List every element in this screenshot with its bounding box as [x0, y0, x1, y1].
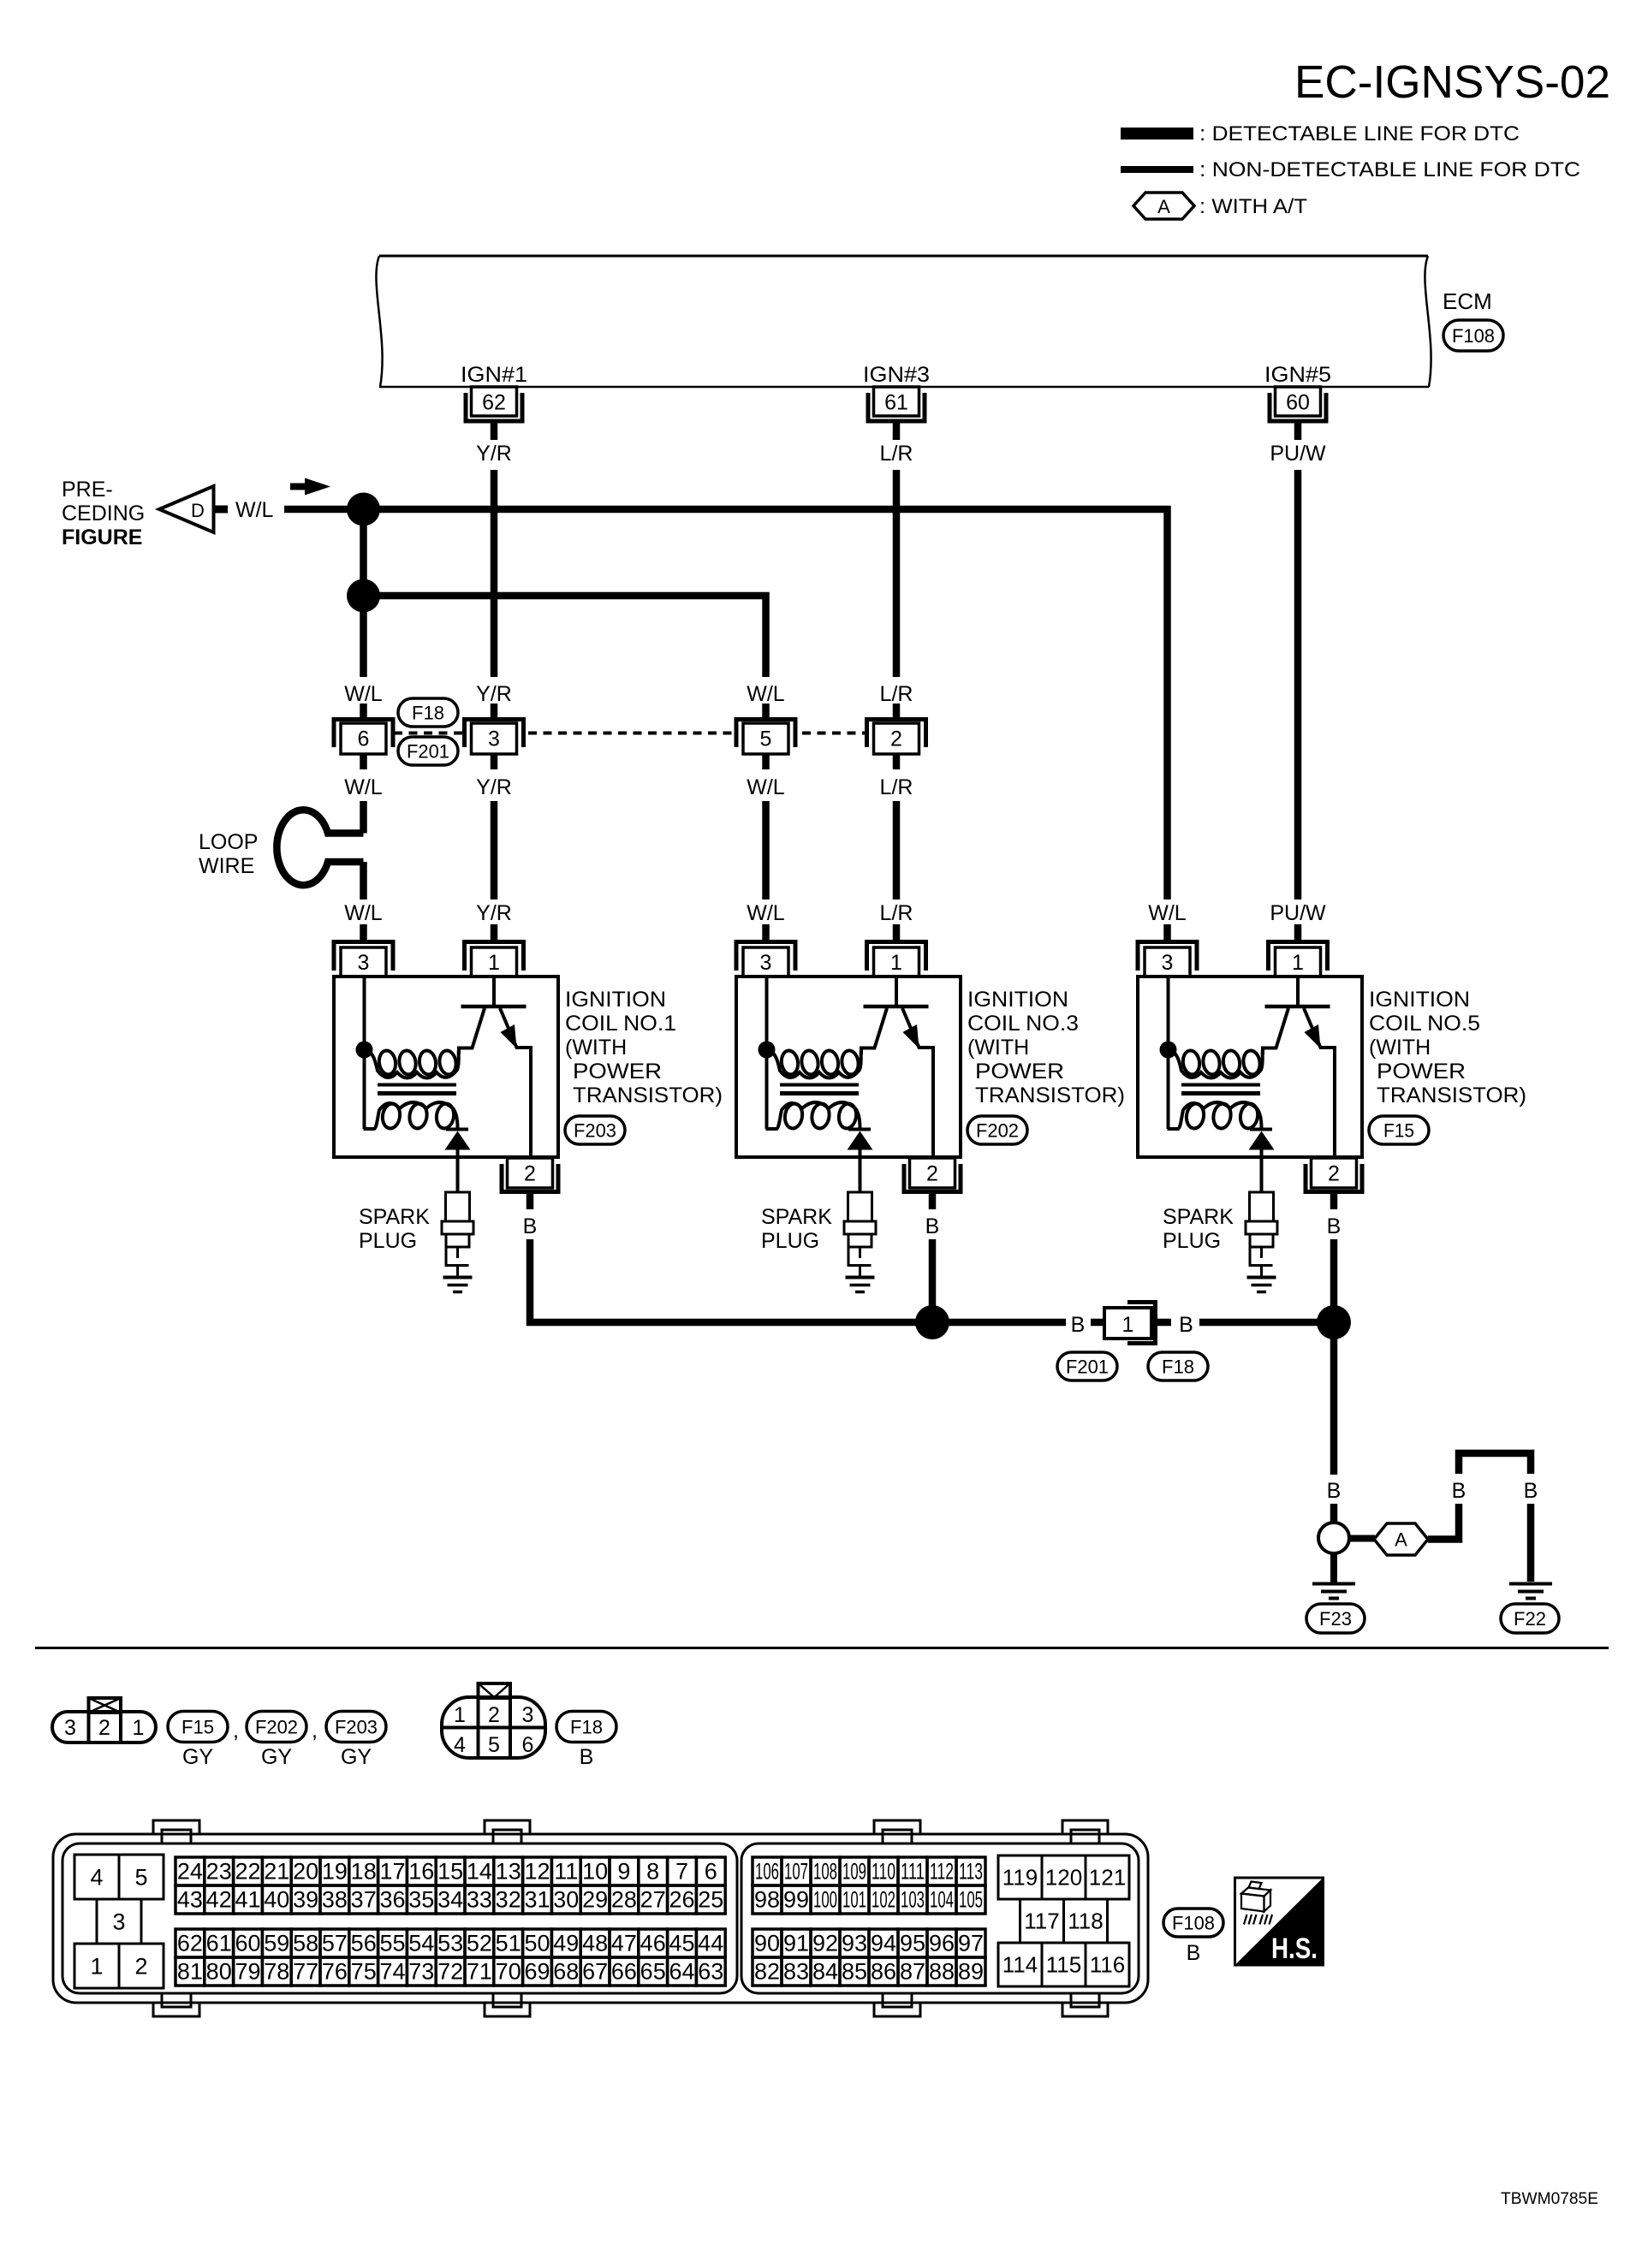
- svg-text:77: 77: [293, 1959, 318, 1985]
- svg-text:TRANSISTOR): TRANSISTOR): [1377, 1084, 1526, 1107]
- svg-text:50: 50: [524, 1931, 550, 1956]
- coil 3 transistor collector: [861, 1008, 887, 1054]
- svg-text:F201: F201: [1066, 1357, 1109, 1378]
- svg-text:56: 56: [351, 1931, 377, 1956]
- svg-text:43: 43: [177, 1887, 203, 1913]
- coil 5 primary feed wire: [1167, 978, 1170, 1129]
- svg-text:111: 111: [901, 1859, 925, 1885]
- coil 5 transformer core: [1181, 1084, 1260, 1087]
- svg-text:3: 3: [522, 1703, 534, 1727]
- coil 5 winding junction dot: [1160, 1042, 1177, 1059]
- ECM pin grid 106-113 / 98-105: [753, 1857, 782, 1885]
- ECM connector mounting tab bottom: [1062, 2002, 1108, 2016]
- svg-text:61: 61: [884, 391, 908, 415]
- svg-text:8: 8: [646, 1859, 659, 1885]
- svg-text:18: 18: [351, 1859, 377, 1885]
- coil 3 power transistor base wire: [895, 978, 898, 1006]
- svg-text:W/L: W/L: [747, 682, 785, 706]
- svg-text:99: 99: [783, 1887, 809, 1913]
- svg-text:87: 87: [900, 1959, 925, 1985]
- svg-text:28: 28: [611, 1887, 637, 1913]
- svg-text:GY: GY: [182, 1745, 213, 1769]
- svg-text:COIL NO.1: COIL NO.1: [565, 1012, 676, 1036]
- svg-text:TRANSISTOR): TRANSISTOR): [573, 1084, 723, 1107]
- svg-text:Y/R: Y/R: [476, 682, 512, 706]
- svg-text:39: 39: [293, 1887, 318, 1913]
- ECM large pin 5: [119, 1855, 164, 1899]
- svg-text:PLUG: PLUG: [1163, 1229, 1221, 1253]
- coil 3 power transistor base bar: [864, 1005, 929, 1009]
- svg-text:: WITH A/T: : WITH A/T: [1199, 195, 1307, 218]
- svg-text:LOOP: LOOP: [199, 830, 258, 854]
- svg-text:A: A: [1157, 196, 1170, 217]
- svg-text:85: 85: [842, 1959, 867, 1985]
- svg-text:F108: F108: [1172, 1913, 1215, 1934]
- W/L wire into loop: [360, 801, 367, 834]
- svg-text:B: B: [1327, 1479, 1342, 1503]
- svg-text:B: B: [1327, 1214, 1342, 1238]
- coil 3 transformer secondary winding: [766, 1102, 860, 1129]
- svg-text:SPARK: SPARK: [359, 1205, 430, 1229]
- svg-text:(WITH: (WITH: [967, 1036, 1029, 1060]
- svg-text:W/L: W/L: [747, 901, 785, 925]
- ECM large pins 114-116: [998, 1943, 1042, 1986]
- loop wire: [277, 810, 363, 885]
- svg-text:6: 6: [522, 1733, 534, 1757]
- ignition coil no.1 box: [334, 977, 558, 1157]
- svg-text:118: 118: [1068, 1909, 1103, 1934]
- ECM pin 62: [466, 393, 522, 421]
- svg-text:5: 5: [760, 727, 772, 751]
- svg-text:B: B: [1187, 1941, 1201, 1965]
- B wire from coil 1 to ground bus: [530, 1239, 1066, 1322]
- ECM large pin 1: [74, 1944, 119, 1988]
- svg-text:3: 3: [112, 1909, 125, 1935]
- svg-text:47: 47: [611, 1931, 637, 1956]
- svg-text:72: 72: [437, 1959, 463, 1985]
- svg-text:59: 59: [264, 1931, 289, 1956]
- svg-text:48: 48: [582, 1931, 608, 1956]
- coil 1 transformer primary winding: [366, 1049, 460, 1078]
- svg-text:3: 3: [1162, 951, 1174, 975]
- svg-text:F18: F18: [570, 1717, 603, 1738]
- svg-text:IGN#3: IGN#3: [863, 363, 930, 387]
- svg-text:68: 68: [553, 1959, 579, 1985]
- H.S. logo triangle: [1235, 1878, 1324, 1965]
- svg-text:12: 12: [524, 1859, 550, 1885]
- svg-text:9: 9: [617, 1859, 630, 1885]
- svg-text:49: 49: [553, 1931, 579, 1956]
- svg-text:Y/R: Y/R: [476, 775, 512, 799]
- svg-text:17: 17: [379, 1859, 405, 1885]
- svg-text:30: 30: [553, 1887, 579, 1913]
- svg-text:EC-IGNSYS-02: EC-IGNSYS-02: [1294, 56, 1610, 108]
- coil 3 spark plug: [859, 1157, 862, 1192]
- ignition coil no.3 pin 2: [910, 1158, 955, 1188]
- coil 1 connector id F203: [565, 1116, 625, 1144]
- ignition coil no.1 pin 1: [491, 924, 498, 941]
- ECM large pins 119-121: [998, 1855, 1042, 1899]
- B wire stub to ground eyelet: [1330, 1504, 1338, 1522]
- svg-text:F23: F23: [1319, 1608, 1352, 1630]
- svg-text:33: 33: [467, 1887, 492, 1913]
- svg-text:: NON-DETECTABLE LINE FOR DTC: : NON-DETECTABLE LINE FOR DTC: [1199, 158, 1580, 181]
- coil connector face (3-pin): [52, 1712, 156, 1743]
- svg-text:PU/W: PU/W: [1270, 442, 1326, 466]
- svg-text:80: 80: [206, 1959, 232, 1985]
- branch bridge wire: [1459, 1453, 1531, 1474]
- svg-text:54: 54: [408, 1931, 434, 1956]
- ignition coil no.3 pin 3: [762, 924, 770, 941]
- svg-text:103: 103: [901, 1887, 925, 1913]
- svg-text:89: 89: [958, 1959, 984, 1985]
- svg-text:POWER: POWER: [573, 1060, 662, 1084]
- ECM pin 61: [868, 393, 925, 421]
- svg-text:86: 86: [871, 1959, 896, 1985]
- stub into splice connector: [1091, 1319, 1105, 1327]
- coil 3 transformer primary winding: [768, 1049, 862, 1078]
- ECM large pin 2: [119, 1944, 164, 1988]
- coil 3 transistor emitter: [902, 1008, 933, 1157]
- svg-text:107: 107: [784, 1859, 808, 1885]
- svg-text:3: 3: [488, 727, 500, 751]
- ECM connector mounting tab bottom: [874, 2002, 920, 2016]
- svg-text:F108: F108: [1452, 325, 1495, 347]
- H.S. logo connector sketch: [1241, 1882, 1272, 1925]
- svg-text:5: 5: [134, 1865, 147, 1891]
- svg-text:B: B: [1524, 1479, 1538, 1503]
- connector F18/F201 pin 2: [893, 704, 901, 720]
- svg-text:IGN#1: IGN#1: [461, 363, 527, 387]
- PU/W wire: [1294, 470, 1302, 899]
- connector F18/F201 pin 5: [762, 704, 770, 720]
- svg-text:B: B: [523, 1214, 538, 1238]
- svg-text:71: 71: [467, 1959, 492, 1985]
- svg-text:27: 27: [640, 1887, 666, 1913]
- coil 5 transformer secondary winding: [1168, 1102, 1262, 1129]
- svg-text:B: B: [580, 1745, 594, 1769]
- svg-text:110: 110: [872, 1859, 895, 1885]
- svg-text:6: 6: [705, 1859, 717, 1885]
- coil 3 primary feed wire: [765, 978, 769, 1129]
- H.S. logo square: [1235, 1878, 1324, 1965]
- svg-text:F18: F18: [412, 703, 444, 724]
- svg-text:7: 7: [675, 1859, 688, 1885]
- coil 5 secondary diode: [1250, 1128, 1272, 1131]
- W/L wire below loop: [360, 862, 367, 899]
- coil 5 power transistor base wire: [1296, 978, 1300, 1006]
- eyelet to ground stub: [1330, 1553, 1337, 1582]
- coil 3 transistor emitter arrow: [903, 1024, 919, 1048]
- svg-text:SPARK: SPARK: [761, 1205, 832, 1229]
- coil 3 spark plug ground: [846, 1276, 875, 1279]
- section separator line: [35, 1647, 1609, 1649]
- coil 5 transistor collector: [1263, 1008, 1288, 1054]
- svg-text:F203: F203: [574, 1120, 616, 1142]
- svg-text:F15: F15: [1383, 1120, 1414, 1142]
- svg-text:POWER: POWER: [975, 1060, 1064, 1084]
- svg-text:114: 114: [1002, 1952, 1038, 1978]
- svg-text:GY: GY: [341, 1745, 372, 1769]
- svg-text:117: 117: [1024, 1909, 1059, 1934]
- connector id F202: [247, 1712, 306, 1743]
- svg-text:95: 95: [900, 1931, 925, 1956]
- ECM connector mounting tab bottom: [153, 2002, 199, 2016]
- ignition coil no.1 pin 2: [508, 1158, 553, 1188]
- svg-text:42: 42: [206, 1887, 232, 1913]
- connector id F18: [398, 698, 458, 727]
- svg-text:44: 44: [698, 1931, 723, 1956]
- svg-text:109: 109: [842, 1859, 866, 1885]
- coil 1 transistor emitter: [500, 1008, 531, 1157]
- Y/R wire upper: [491, 470, 498, 677]
- svg-text:3: 3: [760, 951, 772, 975]
- with A/T hexagon: [1374, 1523, 1428, 1555]
- ECM connector mounting tab bottom: [485, 2002, 530, 2016]
- splice connector id F201: [1057, 1352, 1117, 1380]
- svg-text:37: 37: [351, 1887, 377, 1913]
- svg-text:FIGURE: FIGURE: [62, 525, 142, 549]
- ignition coil no.5 pin 3: [1163, 924, 1171, 941]
- W/L riser wire: [360, 509, 367, 677]
- svg-text:57: 57: [322, 1931, 348, 1956]
- svg-text:92: 92: [812, 1931, 838, 1956]
- svg-text:ECM: ECM: [1443, 288, 1492, 314]
- legend non-detectable line sample: [1121, 166, 1193, 173]
- svg-text:PLUG: PLUG: [761, 1229, 819, 1253]
- svg-text:Y/R: Y/R: [476, 442, 512, 466]
- coil 1 transistor emitter arrow: [501, 1024, 517, 1048]
- svg-text:W/L: W/L: [235, 498, 274, 522]
- ground eyelet circle: [1318, 1523, 1349, 1553]
- W/L wire lower to coil 3: [762, 801, 770, 899]
- svg-text:113: 113: [959, 1859, 983, 1885]
- ECM connector mounting tab top: [1062, 1820, 1108, 1835]
- svg-text:L/R: L/R: [880, 682, 913, 706]
- coil 3 connector id F202: [967, 1116, 1027, 1144]
- svg-text:90: 90: [754, 1931, 780, 1956]
- svg-text:GY: GY: [261, 1745, 292, 1769]
- coil 5 connector id F15: [1369, 1116, 1429, 1144]
- svg-text:13: 13: [496, 1859, 521, 1885]
- svg-text:B: B: [1452, 1479, 1466, 1503]
- W/L branch wire to coil no.3 column: [364, 596, 766, 677]
- svg-text:116: 116: [1090, 1952, 1125, 1978]
- svg-text:D: D: [191, 500, 205, 521]
- svg-text:3: 3: [358, 951, 370, 975]
- svg-text:COIL NO.3: COIL NO.3: [967, 1012, 1079, 1036]
- svg-text:1: 1: [454, 1703, 466, 1727]
- coil connector key tab: [89, 1698, 122, 1713]
- connector id F15: [168, 1712, 228, 1743]
- svg-text:1: 1: [133, 1716, 145, 1740]
- svg-text:A: A: [1395, 1529, 1407, 1551]
- B wire down from junction: [1330, 1322, 1338, 1475]
- svg-text:69: 69: [524, 1959, 550, 1985]
- svg-text:5: 5: [488, 1733, 500, 1757]
- svg-text:TBWM0785E: TBWM0785E: [1501, 2189, 1598, 2208]
- svg-text:IGNITION: IGNITION: [1369, 988, 1470, 1012]
- ECM large pin 4: [74, 1855, 119, 1899]
- ECM connector outer shell: [53, 1834, 1148, 2003]
- svg-text:67: 67: [582, 1959, 608, 1985]
- svg-text:W/L: W/L: [1148, 901, 1187, 925]
- ECM connector mounting tab top: [485, 1820, 530, 1835]
- coil 5 power transistor base bar: [1265, 1005, 1330, 1009]
- svg-text:PLUG: PLUG: [359, 1229, 417, 1253]
- stub from triangle: [215, 506, 228, 514]
- B bus junction dot at coil 5: [1317, 1305, 1351, 1339]
- svg-text:98: 98: [754, 1887, 780, 1913]
- svg-text:4: 4: [454, 1733, 466, 1757]
- svg-text:4: 4: [90, 1865, 103, 1891]
- svg-text:1: 1: [488, 951, 500, 975]
- svg-text:40: 40: [264, 1887, 289, 1913]
- svg-text:F22: F22: [1514, 1608, 1546, 1630]
- svg-text:58: 58: [293, 1931, 318, 1956]
- coil 3 transformer core: [780, 1084, 859, 1087]
- svg-text:2: 2: [926, 1162, 938, 1186]
- svg-text:TRANSISTOR): TRANSISTOR): [975, 1084, 1125, 1107]
- svg-text:WIRE: WIRE: [199, 854, 254, 878]
- svg-text:60: 60: [235, 1931, 260, 1956]
- svg-text:73: 73: [408, 1959, 434, 1985]
- coil 1 winding junction dot: [356, 1042, 373, 1059]
- ECM connector right inner shell: [741, 1843, 1139, 1993]
- svg-text:102: 102: [872, 1887, 895, 1913]
- coil 1 secondary diode: [446, 1128, 468, 1131]
- svg-text:120: 120: [1045, 1865, 1082, 1891]
- svg-text:62: 62: [482, 391, 506, 415]
- svg-text:H.S.: H.S.: [1271, 1933, 1318, 1965]
- ECM large pins 117-118: [1020, 1899, 1064, 1943]
- svg-text:F201: F201: [407, 741, 449, 763]
- svg-text:F202: F202: [255, 1717, 298, 1738]
- svg-text:34: 34: [437, 1887, 463, 1913]
- svg-text:IGNITION: IGNITION: [967, 988, 1068, 1012]
- svg-text:2: 2: [1328, 1162, 1340, 1186]
- svg-text:(WITH: (WITH: [565, 1036, 627, 1060]
- ground symbol F22: [1509, 1582, 1552, 1586]
- svg-text:65: 65: [640, 1959, 666, 1985]
- svg-text:52: 52: [467, 1931, 492, 1956]
- coil 5 transistor emitter arrow: [1305, 1024, 1321, 1048]
- svg-text:121: 121: [1089, 1865, 1126, 1891]
- svg-text:2: 2: [488, 1703, 500, 1727]
- coil 5 transistor emitter: [1304, 1008, 1335, 1157]
- ECM connector mounting tab top: [153, 1820, 199, 1835]
- connector F18/F201 pin 3: [491, 704, 498, 720]
- svg-text:35: 35: [408, 1887, 434, 1913]
- svg-text:,: ,: [233, 1719, 239, 1743]
- svg-text:115: 115: [1046, 1952, 1081, 1978]
- coil 1 primary feed wire: [363, 978, 366, 1129]
- coil 5 spark plug ground: [1247, 1276, 1276, 1279]
- L/R wire upper: [893, 470, 901, 677]
- svg-text:SPARK: SPARK: [1163, 1205, 1234, 1229]
- ignition coil no.5 box: [1138, 977, 1362, 1157]
- connector id F18: [556, 1712, 616, 1743]
- ECM pin grid 62-44 / 81-63: [176, 1929, 205, 1957]
- splice connector pin 1: [1104, 1308, 1151, 1339]
- svg-text:61: 61: [206, 1931, 232, 1956]
- svg-text:104: 104: [930, 1887, 954, 1913]
- svg-text:,: ,: [312, 1719, 318, 1743]
- svg-text:6: 6: [358, 727, 370, 751]
- svg-text:66: 66: [611, 1959, 637, 1985]
- coil 3 winding junction dot: [759, 1042, 776, 1059]
- svg-text:26: 26: [669, 1887, 694, 1913]
- Y/R wire lower: [491, 801, 498, 899]
- svg-text:W/L: W/L: [344, 901, 383, 925]
- B wire from coil 3: [929, 1239, 937, 1322]
- svg-text:PRE-: PRE-: [62, 478, 113, 502]
- ECM box: [379, 255, 1428, 258]
- stub from eyelet to A hexagon: [1349, 1535, 1375, 1542]
- svg-text:15: 15: [437, 1859, 463, 1885]
- B wire from coil 5: [1330, 1239, 1338, 1322]
- connector F18/F201 pin 6: [360, 704, 367, 720]
- svg-text:IGN#5: IGN#5: [1264, 363, 1331, 387]
- svg-text:51: 51: [496, 1931, 521, 1956]
- ECM connector id F108: [1443, 320, 1503, 351]
- ECM large pin 3: [97, 1899, 141, 1944]
- ignition coil no.3 pin 1: [893, 924, 901, 941]
- ECM connector id F108: [1163, 1909, 1223, 1937]
- ECM connector mounting tab top: [874, 1820, 920, 1835]
- svg-text:45: 45: [669, 1931, 694, 1956]
- svg-text:1: 1: [90, 1954, 103, 1980]
- B bus right segment: [1199, 1319, 1334, 1327]
- svg-text:60: 60: [1286, 391, 1310, 415]
- svg-text:14: 14: [467, 1859, 492, 1885]
- ground symbol F23: [1312, 1582, 1355, 1586]
- svg-text:75: 75: [351, 1959, 377, 1985]
- B bus junction dot at coil 3: [915, 1305, 949, 1339]
- svg-text:70: 70: [496, 1959, 521, 1985]
- svg-text:IGNITION: IGNITION: [565, 988, 666, 1012]
- svg-text:105: 105: [959, 1887, 983, 1913]
- svg-text:100: 100: [813, 1887, 837, 1913]
- svg-text:3: 3: [64, 1716, 76, 1740]
- svg-text:25: 25: [698, 1887, 723, 1913]
- svg-text:L/R: L/R: [880, 901, 913, 925]
- svg-text:81: 81: [177, 1959, 203, 1985]
- coil 5 spark plug: [1260, 1157, 1264, 1192]
- ECM pin 60: [1270, 393, 1326, 421]
- svg-text:55: 55: [379, 1931, 405, 1956]
- svg-text:119: 119: [1002, 1865, 1038, 1891]
- flow direction arrow: [290, 484, 312, 490]
- svg-text:B: B: [925, 1214, 940, 1238]
- svg-text:62: 62: [177, 1931, 203, 1956]
- svg-text:21: 21: [264, 1859, 289, 1885]
- coil 1 transformer secondary winding: [364, 1102, 458, 1129]
- svg-text:2: 2: [890, 727, 902, 751]
- stub out of splice connector: [1157, 1319, 1171, 1327]
- legend hexagon A: [1133, 193, 1194, 219]
- svg-text:B: B: [1071, 1313, 1086, 1337]
- svg-text:97: 97: [958, 1931, 984, 1956]
- svg-text:83: 83: [783, 1959, 809, 1985]
- svg-text:74: 74: [379, 1959, 405, 1985]
- svg-text:B: B: [1179, 1313, 1193, 1337]
- svg-text:38: 38: [322, 1887, 348, 1913]
- svg-text:23: 23: [206, 1859, 232, 1885]
- svg-text:108: 108: [813, 1859, 837, 1885]
- W/L junction dot 2: [347, 579, 380, 613]
- coil 5 transformer primary winding: [1169, 1049, 1264, 1078]
